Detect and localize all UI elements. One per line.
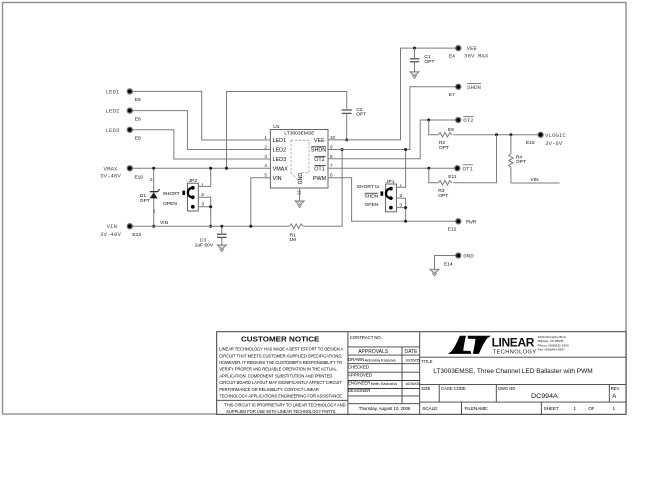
svg-text:3V-48V: 3V-48V <box>100 173 121 180</box>
node R3 riser junction <box>495 133 498 136</box>
svg-text:OPT: OPT <box>439 145 449 151</box>
svg-text:VMAX: VMAX <box>104 165 118 172</box>
node pin5/VIN junction <box>249 225 252 228</box>
U1 pin name PWM <box>313 176 327 182</box>
wire LED3: E8 to U1 pin 3 <box>130 130 271 159</box>
ground for U1 pin 11 <box>295 201 304 208</box>
svg-text:APPROVALS: APPROVALS <box>358 349 389 355</box>
U1 pin name VEE <box>314 138 325 144</box>
wire LED1: E5 to U1 pin 1 <box>130 91 271 140</box>
U1 pin number 4 <box>264 163 267 168</box>
svg-text:OF: OF <box>588 406 595 411</box>
svg-text:LED2: LED2 <box>106 108 120 115</box>
svg-text:SIZE: SIZE <box>421 386 430 391</box>
wire E9 junction down to R2 <box>429 120 439 135</box>
svg-text:6: 6 <box>330 173 333 178</box>
U1 pin name VIN <box>273 176 282 182</box>
wire U1 pin 8 OT2 to E9 <box>328 120 458 159</box>
svg-text:8: 8 <box>330 154 333 159</box>
svg-text:3V-40V: 3V-40V <box>100 231 121 238</box>
svg-text:VIN: VIN <box>160 220 169 226</box>
svg-text:SHORT to: SHORT to <box>357 184 380 190</box>
svg-text:E14: E14 <box>444 262 453 268</box>
wire JP2 pin 2 to pin 3 net <box>198 197 210 207</box>
svg-text:2: 2 <box>150 177 153 182</box>
svg-text:LED1: LED1 <box>273 138 287 144</box>
wire R3 up to R2 line <box>453 135 496 183</box>
resistor R4 OPT <box>509 135 526 183</box>
svg-text:E8: E8 <box>135 136 141 142</box>
svg-text:LED1: LED1 <box>106 88 120 95</box>
svg-text:OPT: OPT <box>424 59 434 65</box>
wire U1 pin 9 SHDN to E7 <box>328 87 458 150</box>
node D1/VIN junction <box>152 225 155 228</box>
wire JP2 pin 3 to VIN line <box>198 207 210 226</box>
svg-text:10/26/05: 10/26/05 <box>405 358 419 362</box>
svg-text:Fax: (408)434-0507: Fax: (408)434-0507 <box>538 348 565 352</box>
svg-text:DC994A: DC994A <box>531 393 558 400</box>
capacitor C2 <box>342 107 367 118</box>
wire VMAX: E10 to U1 pin 4 <box>130 167 271 169</box>
terminal E7 SHDN <box>449 83 482 98</box>
svg-text:VEE: VEE <box>467 45 478 52</box>
svg-text:5: 5 <box>264 173 267 178</box>
svg-text:E13: E13 <box>132 232 141 238</box>
svg-text:OT2: OT2 <box>463 117 474 124</box>
U1 pin number 5 <box>264 173 267 178</box>
svg-text:SHDN: SHDN <box>311 148 326 154</box>
svg-text:ENGINEER: ENGINEER <box>348 381 371 386</box>
svg-text:THIS CIRCUIT IS PROPRIETARY TO: THIS CIRCUIT IS PROPRIETARY TO LINEAR TE… <box>224 403 345 408</box>
U1 pin name VMAX <box>273 166 289 172</box>
node C3/VIN junction <box>220 225 223 228</box>
svg-text:LED3: LED3 <box>106 127 120 134</box>
wire JP1 pin 2 to pin 3 net <box>396 198 405 208</box>
svg-text:VIN: VIN <box>273 176 282 182</box>
U1 pin name GND rotated <box>298 173 304 185</box>
terminal E10 VMAX <box>100 165 143 180</box>
svg-text:APPROVED: APPROVED <box>348 372 372 377</box>
svg-text:E9: E9 <box>448 127 454 133</box>
svg-text:7: 7 <box>330 163 333 168</box>
wire R2 to E15 VLOGIC <box>453 134 540 136</box>
wire LED2: E6 to U1 pin 2 <box>130 111 271 150</box>
svg-text:OPEN: OPEN <box>365 202 379 208</box>
svg-text:10: 10 <box>330 135 336 140</box>
svg-text:CIRCUIT BOARD LAYOUT MAY SIGNI: CIRCUIT BOARD LAYOUT MAY SIGNIFICANTLY A… <box>219 380 342 385</box>
U1 pin number 3 <box>264 154 267 159</box>
svg-text:OT1: OT1 <box>463 166 474 173</box>
svg-text:E5: E5 <box>135 97 141 103</box>
customer notice box <box>217 335 348 415</box>
U1 pin name SHDN <box>311 147 326 154</box>
svg-text:VIN: VIN <box>107 223 118 230</box>
svg-text:E15: E15 <box>526 140 535 146</box>
svg-text:3: 3 <box>264 154 267 159</box>
ground for E14 <box>430 269 439 276</box>
svg-text:TECHNOLOGY APPLICATIONS ENGINE: TECHNOLOGY APPLICATIONS ENGINEERING FOR … <box>219 394 343 399</box>
svg-text:9: 9 <box>330 144 333 149</box>
svg-text:REV: REV <box>611 386 620 391</box>
svg-text:TITLE: TITLE <box>421 359 432 364</box>
svg-text:LINEAR: LINEAR <box>492 335 535 349</box>
svg-text:HOWEVER, IT REMAINS THE CUSTOM: HOWEVER, IT REMAINS THE CUSTOMER'S RESPO… <box>219 360 342 365</box>
svg-text:PWM: PWM <box>466 219 477 226</box>
svg-text:36V MAX: 36V MAX <box>464 53 489 60</box>
svg-text:Thursday, August 10, 2006: Thursday, August 10, 2006 <box>359 406 411 411</box>
node D1/VMAX junction <box>152 167 155 170</box>
U1 pin number 10 <box>330 135 336 140</box>
Linear Technology logo <box>448 335 569 355</box>
op-amp U1 LT3003EMSE body <box>270 124 328 188</box>
svg-text:FILENAME:: FILENAME: <box>465 406 489 411</box>
svg-text:PERFORMANCE OR RELIABILITY. C: PERFORMANCE OR RELIABILITY. CONTACT LINE… <box>219 387 319 392</box>
wire VMAX to C2 riser <box>227 92 347 169</box>
U1 pin name OT1 <box>314 166 326 173</box>
resistor R1 1M <box>289 224 303 243</box>
svg-text:OPT: OPT <box>356 112 366 118</box>
node JP2.3 junction <box>209 205 212 208</box>
svg-text:OT2: OT2 <box>314 157 324 163</box>
svg-text:OPT: OPT <box>516 159 526 165</box>
svg-text:CONTRACT NO.: CONTRACT NO. <box>350 335 382 340</box>
svg-text:1uF 50V: 1uF 50V <box>195 242 214 248</box>
frame border <box>3 3 627 415</box>
svg-text:E11: E11 <box>448 174 457 180</box>
svg-text:SCALE:: SCALE: <box>422 406 438 411</box>
node C2/VEE junction <box>345 138 348 141</box>
svg-text:CAGE CODE: CAGE CODE <box>441 386 466 391</box>
svg-text:LT3003EMSE, Three Channel LED: LT3003EMSE, Three Channel LED Ballaster … <box>433 368 592 375</box>
terminal E5 LED1 <box>106 88 142 103</box>
node C1 junction on VEE wire <box>413 47 416 50</box>
svg-text:1: 1 <box>399 183 402 189</box>
U1 pin number 1 <box>264 135 267 140</box>
U1 pin number 6 <box>330 173 333 178</box>
U1 pin number 8 <box>330 154 333 159</box>
svg-text:DRAWN: DRAWN <box>348 357 364 362</box>
svg-text:U1: U1 <box>273 124 280 130</box>
resistor R2 OPT <box>438 133 452 152</box>
U1 pin number 7 <box>330 163 333 168</box>
terminal E8 LED3 <box>106 127 142 142</box>
wire VIN line: E13 to R1 <box>130 220 290 226</box>
svg-text:E6: E6 <box>135 116 141 122</box>
svg-text:LT3003EMSE: LT3003EMSE <box>284 130 315 136</box>
svg-text:JP2: JP2 <box>189 178 198 184</box>
svg-text:GND: GND <box>298 173 304 185</box>
svg-text:DATE: DATE <box>405 349 419 355</box>
svg-text:1: 1 <box>264 135 267 140</box>
svg-text:SHDN: SHDN <box>467 84 481 91</box>
node E11/R3 junction <box>427 167 430 170</box>
wire JP2 pin 1 to VMAX <box>198 168 210 186</box>
svg-text:E4: E4 <box>449 53 455 59</box>
ground for C1 <box>410 72 419 79</box>
U1 pin name LED3 <box>273 157 287 163</box>
wire R4 to VIN net stub <box>511 177 560 183</box>
svg-text:OPEN: OPEN <box>163 201 177 207</box>
svg-text:LED2: LED2 <box>273 148 287 154</box>
terminal E6 LED2 <box>106 108 142 123</box>
svg-text:GND: GND <box>463 253 474 260</box>
svg-text:SHORT: SHORT <box>163 191 180 197</box>
svg-text:TECHNOLOGY: TECHNOLOGY <box>493 349 537 355</box>
wire U1 pin 6 PWM to E12 <box>328 178 458 222</box>
terminal E15 VLOGIC <box>526 132 566 147</box>
wire JP1 pin 1 to SHDN line <box>396 150 405 188</box>
node R4 junction <box>509 133 512 136</box>
wire U1 pin 10 VEE to E4 <box>328 48 458 140</box>
title block outline <box>217 332 626 415</box>
U1 pin number 9 <box>330 144 333 149</box>
svg-text:APPLICATION. COMPONENT SUBSTI: APPLICATION. COMPONENT SUBSTITUTION AND … <box>219 373 332 378</box>
svg-text:11: 11 <box>296 190 301 195</box>
U1 pin number 2 <box>264 144 267 149</box>
svg-text:JP1: JP1 <box>386 179 395 185</box>
svg-text:OPT: OPT <box>438 193 448 199</box>
jumper JP1 <box>357 179 403 212</box>
capacitor C3 <box>195 226 227 248</box>
svg-text:Antonina Karpova: Antonina Karpova <box>365 357 397 362</box>
node E9/R2 junction <box>427 119 430 122</box>
svg-text:E12: E12 <box>448 227 457 233</box>
node R1 riser / pin9 junction <box>341 148 344 151</box>
svg-text:LINEAR TECHNOLOGY HAS MADE A B: LINEAR TECHNOLOGY HAS MADE A BEST EFFORT… <box>219 347 343 352</box>
ground for C3 <box>217 245 226 252</box>
svg-text:CHECKED: CHECKED <box>348 365 369 370</box>
svg-text:1M: 1M <box>289 237 296 243</box>
svg-text:3V-6V: 3V-6V <box>545 140 563 147</box>
terminal E4 VEE <box>449 45 489 59</box>
wire U1 pin 7 OT1 to E11 <box>328 167 457 169</box>
svg-text:1: 1 <box>201 183 204 189</box>
svg-text:1: 1 <box>153 209 156 214</box>
U1 pin name OT2 <box>314 156 326 163</box>
approvals table <box>348 335 420 411</box>
U1 pin name LED2 <box>273 148 287 154</box>
svg-text:VLOGIC: VLOGIC <box>545 132 566 139</box>
svg-text:VERIFY PROPER AND RELIABLE OPE: VERIFY PROPER AND RELIABLE OPERATION IN … <box>219 367 337 372</box>
terminal E13 VIN <box>100 223 141 238</box>
svg-text:Keith Szolusha: Keith Szolusha <box>371 381 398 386</box>
svg-text:SUPPLIED FOR USE WITH LINEAR T: SUPPLIED FOR USE WITH LINEAR TECHNOLOGY … <box>226 409 336 414</box>
svg-text:DWG NO: DWG NO <box>498 386 516 391</box>
svg-text:SHDN: SHDN <box>365 194 379 200</box>
node JP1.3 junction <box>404 206 407 209</box>
svg-text:CIRCUIT THAT MEETS CUSTOMER-SU: CIRCUIT THAT MEETS CUSTOMER-SUPPLIED SPE… <box>219 353 342 358</box>
svg-text:CUSTOMER NOTICE: CUSTOMER NOTICE <box>241 335 319 344</box>
svg-text:A: A <box>612 394 616 400</box>
svg-text:VEE: VEE <box>314 138 325 144</box>
U1 pin name LED1 <box>273 138 287 144</box>
title row <box>420 357 626 375</box>
node JP1/PWM junction <box>404 220 407 223</box>
capacitor C1 <box>410 48 434 72</box>
svg-text:SHEET: SHEET <box>544 406 559 411</box>
svg-text:4: 4 <box>264 163 267 168</box>
diode D1 OPT <box>140 168 160 226</box>
jumper JP2 <box>163 178 205 211</box>
size/cage/dwg row <box>420 385 626 403</box>
wire C2 to VEE line <box>346 114 348 140</box>
node JP2/VIN junction <box>209 225 212 228</box>
svg-text:OT1: OT1 <box>314 166 324 172</box>
node JP1.1/pin9 junction <box>404 148 407 151</box>
svg-text:OPT: OPT <box>140 198 150 204</box>
wire E11 junction down to R3 <box>429 168 438 183</box>
wire R1 to SHDN riser <box>303 150 342 227</box>
svg-text:VIN: VIN <box>530 177 539 183</box>
node VMAX/C2 riser junction <box>225 167 228 170</box>
svg-text:10/26/05: 10/26/05 <box>405 382 419 386</box>
svg-text:VMAX: VMAX <box>273 166 289 172</box>
wire U1 pin 5 VIN <box>251 178 271 226</box>
wire E14 GND <box>435 256 459 270</box>
svg-text:E7: E7 <box>449 92 455 98</box>
terminal E11 OT1 <box>448 165 473 180</box>
wire U1 pin 11 GND stub <box>296 188 301 201</box>
wire JP1 pin 3 to PWM line <box>396 208 405 222</box>
svg-text:LED3: LED3 <box>273 157 287 163</box>
resistor R3 OPT <box>438 181 452 199</box>
terminal E12 PWM <box>448 219 477 233</box>
svg-text:PWM: PWM <box>313 176 327 182</box>
svg-text:E10: E10 <box>134 174 143 180</box>
scale/filename/sheet row <box>420 402 626 414</box>
node JP2.1/VMAX junction <box>209 167 212 170</box>
U1 exposed pad dashed outline <box>291 140 309 182</box>
svg-text:DESIGNER: DESIGNER <box>348 388 371 393</box>
svg-text:2: 2 <box>264 144 267 149</box>
terminal E14 GND <box>444 253 474 268</box>
terminal E9 OT2 <box>448 117 474 133</box>
